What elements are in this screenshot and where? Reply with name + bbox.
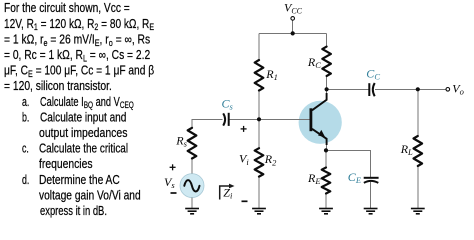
svg-text:Calculate IBQ and VCEQ: Calculate IBQ and VCEQ xyxy=(40,96,134,111)
source Vs sine xyxy=(184,180,199,191)
wire top rail xyxy=(259,32,327,34)
wire R1 bottom xyxy=(258,91,260,120)
svg-text:R2: R2 xyxy=(264,152,277,167)
svg-text:R1: R1 xyxy=(265,67,278,82)
terminal Vcc xyxy=(291,17,295,21)
svg-text:voltage gain Vo/Vi and: voltage gain Vo/Vi and xyxy=(39,190,141,203)
transistor Q1 highlight circle xyxy=(299,101,342,144)
svg-text:Rs: Rs xyxy=(175,134,187,149)
wire collector rail left xyxy=(327,88,369,90)
wire base rail left xyxy=(192,119,223,128)
wire R1 top xyxy=(258,33,260,60)
text block left xyxy=(4,2,154,218)
svg-text:For the circuit shown, Vcc =: For the circuit shown, Vcc = xyxy=(4,2,130,15)
wire emitter rail xyxy=(326,150,371,177)
svg-text:Calculate input and: Calculate input and xyxy=(40,111,126,124)
svg-text:Vs: Vs xyxy=(164,175,175,190)
ground (RL) xyxy=(411,209,425,214)
svg-text:c.: c. xyxy=(22,142,29,156)
resistor Rs xyxy=(188,128,197,159)
svg-text:Determine the AC: Determine the AC xyxy=(39,174,120,187)
wire base rail right xyxy=(230,118,310,120)
capacitor CE xyxy=(364,178,379,183)
capacitor CC xyxy=(369,83,374,96)
ground (Vs) xyxy=(185,209,199,214)
wire R2 to ground xyxy=(258,177,260,208)
ground (R2) xyxy=(252,209,266,214)
wire Vcc stub xyxy=(292,20,294,33)
junction node emitter xyxy=(324,148,328,152)
junction node collector xyxy=(325,87,329,91)
plus minus Vs xyxy=(170,164,177,193)
wire collector rail right xyxy=(375,88,446,90)
junction node top xyxy=(291,31,295,35)
resistor RC xyxy=(322,47,331,76)
svg-text:output impedances: output impedances xyxy=(39,127,128,140)
svg-text:d.: d. xyxy=(22,173,29,187)
wire RC top xyxy=(326,33,328,46)
svg-text:VCC: VCC xyxy=(284,1,303,16)
transistor emitter arrow xyxy=(318,130,325,137)
transistor Q1 xyxy=(311,93,327,145)
impedance arrow Zi xyxy=(220,186,231,200)
wire CE to ground xyxy=(370,182,372,208)
junction node output xyxy=(416,87,420,91)
svg-text:μF, CE = 100 μF, Cc = 1 μF and: μF, CE = 100 μF, Cc = 1 μF and β xyxy=(4,65,154,79)
svg-text:express it in dB.: express it in dB. xyxy=(40,205,107,219)
wire R2 top xyxy=(258,119,260,148)
svg-text:= 120, silicon transistor.: = 120, silicon transistor. xyxy=(4,80,112,93)
svg-text:= 1 kΩ, re = 26 mV/IE, ro = ∞,: = 1 kΩ, re = 26 mV/IE, ro = ∞, Rs xyxy=(4,34,150,48)
resistor RL xyxy=(414,136,423,166)
wire Vs to ground xyxy=(191,198,193,208)
wire Rs to Vs xyxy=(191,159,193,174)
resistor R1 xyxy=(255,60,264,91)
junction node base xyxy=(257,117,261,121)
svg-text:frequencies: frequencies xyxy=(39,158,93,171)
resistor R2 xyxy=(255,148,264,176)
svg-text:RE: RE xyxy=(307,171,321,186)
wire RC bottom xyxy=(326,76,328,89)
wire RE top xyxy=(325,150,327,167)
svg-text:CE: CE xyxy=(348,170,362,185)
svg-text:a.: a. xyxy=(22,95,29,109)
wire RL to ground xyxy=(417,166,419,208)
Vs source circle xyxy=(180,174,204,198)
svg-text:Calculate the critical: Calculate the critical xyxy=(39,143,128,156)
resistor RE xyxy=(322,168,331,194)
svg-text:RC: RC xyxy=(307,55,321,70)
wire RE to ground xyxy=(325,194,327,209)
svg-text:CC: CC xyxy=(366,66,380,81)
svg-text:Zi: Zi xyxy=(223,186,233,201)
svg-text:Cs: Cs xyxy=(222,96,234,111)
wire RL top xyxy=(417,89,419,136)
plus minus Vi xyxy=(241,126,248,201)
wire emitter stub xyxy=(326,144,328,150)
svg-text:12V, R1 = 120 kΩ, R2 = 80 kΩ,: 12V, R1 = 120 kΩ, R2 = 80 kΩ, RE xyxy=(4,18,154,33)
capacitor Cs xyxy=(223,113,229,126)
svg-text:RL: RL xyxy=(400,142,413,157)
wire collector stub xyxy=(326,89,328,94)
svg-text:Vo: Vo xyxy=(452,82,464,97)
svg-text:= 0, Rc = 1 kΩ, RL = ∞, Cs = 2: = 0, Rc = 1 kΩ, RL = ∞, Cs = 2.2 xyxy=(4,49,150,63)
ground (CE) xyxy=(364,209,378,214)
svg-text:Vi: Vi xyxy=(239,152,249,167)
ground (RE) xyxy=(319,209,333,214)
terminal Vo xyxy=(446,88,450,92)
svg-text:b.: b. xyxy=(22,111,29,125)
